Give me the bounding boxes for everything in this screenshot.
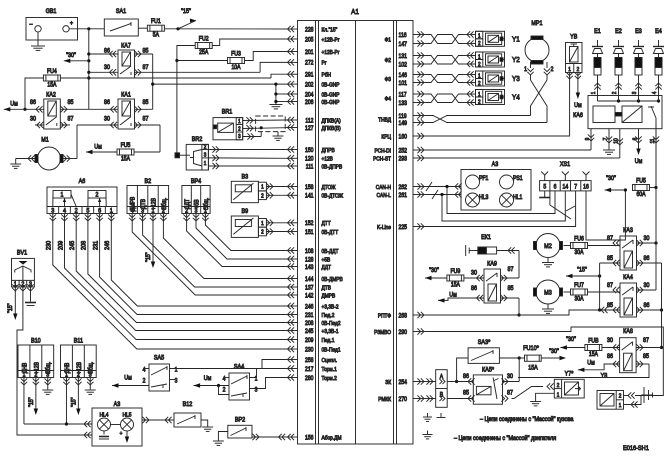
svg-text:268: 268 xyxy=(399,313,407,319)
svg-text:CAN-H: CAN-H xyxy=(376,184,391,190)
wire BR2 pin3 xyxy=(208,157,286,159)
wire BR1 pin3 shield xyxy=(243,136,262,138)
fan motor M2 xyxy=(536,234,560,258)
svg-text:16: 16 xyxy=(583,184,589,190)
svg-text:25А: 25А xyxy=(199,50,208,56)
svg-text:152: 152 xyxy=(305,221,313,227)
wire KA4 85 from 268 xyxy=(600,309,620,311)
svg-text:120: 120 xyxy=(305,156,313,162)
svg-text:Е3: Е3 xyxy=(635,29,642,35)
svg-text:ВР4: ВР4 xyxy=(191,179,202,185)
wire YB pin2 Um xyxy=(575,72,581,79)
svg-text:CAN-L: CAN-L xyxy=(377,192,392,198)
wire KA9 87 to EK1 xyxy=(501,277,520,279)
wire A1 268 to KA4 85 xyxy=(426,310,608,315)
svg-text:GB1: GB1 xyxy=(46,9,57,15)
svg-text:+3,3В-2: +3,3В-2 xyxy=(322,304,339,310)
svg-text:146: 146 xyxy=(399,72,407,78)
svg-text:111: 111 xyxy=(306,164,314,170)
wire KA5 30 to FU10 node xyxy=(503,381,520,383)
svg-text:+12В-Рг: +12В-Рг xyxy=(322,49,340,55)
svg-text:1: 1 xyxy=(568,66,571,72)
svg-text:1: 1 xyxy=(61,192,64,198)
svg-text:1: 1 xyxy=(238,119,241,125)
svg-text:Y3: Y3 xyxy=(512,76,520,84)
TNVD wires 119 149 cross xyxy=(426,116,547,123)
svg-text:BR1: BR1 xyxy=(222,109,233,115)
ground B12 xyxy=(201,420,208,427)
svg-text:РСН-DI: РСН-DI xyxy=(374,148,391,154)
svg-text:0В-ДМРВ: 0В-ДМРВ xyxy=(322,276,344,282)
wire KA3 30 to trunk xyxy=(637,242,657,244)
svg-text:108: 108 xyxy=(305,248,313,254)
wire FU1 to A1 pin 228 xyxy=(164,28,286,30)
svg-text:Ф2: Ф2 xyxy=(385,57,391,63)
svg-text:141: 141 xyxy=(305,193,313,199)
svg-text:K-Line: K-Line xyxy=(377,224,391,230)
wire KA5 87 to Y7 xyxy=(501,395,508,401)
svg-text:Y8: Y8 xyxy=(601,373,608,379)
svg-text:"30": "30" xyxy=(566,337,576,343)
wire BR1 pin1 xyxy=(243,119,286,122)
svg-text:FU10*: FU10* xyxy=(523,346,539,352)
svg-text:204: 204 xyxy=(305,92,313,98)
wire B10/B11 to A3 lamps xyxy=(24,423,92,425)
svg-text:FU1: FU1 xyxy=(151,19,161,25)
svg-text:0В-Пед1: 0В-Пед1 xyxy=(322,347,341,353)
svg-text:FU4: FU4 xyxy=(47,69,57,75)
svg-text:FU6: FU6 xyxy=(574,236,584,242)
svg-text:КА2: КА2 xyxy=(46,92,56,98)
wire BR2 pin1 xyxy=(208,165,286,167)
svg-text:FUВ: FUВ xyxy=(588,338,599,344)
svg-text:128: 128 xyxy=(305,257,313,263)
svg-text:SA1: SA1 xyxy=(116,9,126,15)
wire KA8 85 xyxy=(636,363,649,365)
wire FU3 feed xyxy=(177,60,228,62)
wire SA4 pin1 to A1 217 xyxy=(250,369,287,378)
svg-text:Uм: Uм xyxy=(124,375,132,381)
svg-text:258: 258 xyxy=(305,357,313,363)
pot 1 in A6 xyxy=(53,191,71,199)
wire FU7 to KA4 87 xyxy=(588,291,621,293)
ground Y8 engine xyxy=(643,387,645,403)
wire KA2 85 to KA1 86 xyxy=(60,108,118,110)
wire KA6 pin10 to A1 293 row xyxy=(612,157,620,159)
svg-text:2: 2 xyxy=(223,387,226,393)
wire 15 vertical xyxy=(599,263,601,310)
svg-text:60А: 60А xyxy=(636,192,645,198)
wire A6 pin to A1 231 xyxy=(96,214,102,221)
svg-text:"30": "30" xyxy=(429,268,439,274)
svg-text:FU3: FU3 xyxy=(231,51,241,57)
svg-text:РЗМВО: РЗМВО xyxy=(374,329,391,335)
svg-text:НL3: НL3 xyxy=(479,195,488,201)
svg-text:А1: А1 xyxy=(351,9,359,17)
wire A1 252 to KA6 pin9 xyxy=(426,149,591,151)
antenna mark XS1-16 xyxy=(585,175,587,181)
wire A row from A1 254 xyxy=(426,381,436,383)
svg-text:30: 30 xyxy=(507,374,514,380)
wire B10 pin3 ground xyxy=(45,378,51,385)
svg-text:6: 6 xyxy=(554,184,557,190)
svg-text:КА5*: КА5* xyxy=(482,367,495,373)
pot 2 in A6 xyxy=(88,191,106,199)
svg-text:102: 102 xyxy=(399,62,407,68)
svg-text:5А: 5А xyxy=(153,32,159,38)
svg-text:+5В: +5В xyxy=(322,257,331,263)
wire B9 pin1 xyxy=(266,222,286,224)
svg-text:0В-ДДТ: 0В-ДДТ xyxy=(322,248,340,254)
wire E3 to coil xyxy=(638,75,640,96)
injector Y3 xyxy=(476,71,505,86)
wire KA7 87 to A1 272 xyxy=(135,71,261,73)
svg-text:208: 208 xyxy=(305,320,313,326)
svg-text:Uм: Uм xyxy=(635,159,643,165)
svg-text:Рг: Рг xyxy=(322,60,327,66)
wire XS1-7 K-line to A1 225 xyxy=(426,191,576,227)
svg-text:Сцепл.: Сцепл. xyxy=(322,357,338,363)
wire B2 pin2 to A1 144 xyxy=(160,214,166,221)
wire KA1 87 to FU5 xyxy=(135,124,161,126)
wire E2 to coil xyxy=(618,75,620,96)
wire B3 pin2 xyxy=(266,194,286,196)
svg-text:202: 202 xyxy=(305,82,313,88)
svg-text:2: 2 xyxy=(204,144,207,150)
wire SA1-FU1 xyxy=(138,27,147,29)
svg-text:FU7: FU7 xyxy=(574,283,584,289)
wire XS1-16 to 30 feed xyxy=(586,190,625,240)
svg-text:Абор.ДМ: Абор.ДМ xyxy=(322,435,342,441)
svg-text:217: 217 xyxy=(305,366,313,372)
twisted pair to Y4 xyxy=(426,94,463,103)
svg-text:0В-GNP: 0В-GNP xyxy=(322,99,340,105)
wire B2 pin4 to A1 142 xyxy=(129,214,135,221)
svg-text:BR2: BR2 xyxy=(192,137,203,143)
svg-text:246: 246 xyxy=(305,304,313,310)
svg-text:FU5: FU5 xyxy=(121,143,131,149)
svg-text:1: 1 xyxy=(557,392,560,398)
svg-text:85: 85 xyxy=(607,256,613,262)
svg-text:– Цепи соединены с "Массой" д: – Цепи соединены с "Массой" двигателя xyxy=(454,435,556,443)
svg-text:231: 231 xyxy=(93,240,99,250)
svg-text:280: 280 xyxy=(305,375,313,381)
wire FU3 to A1 201 xyxy=(245,52,287,61)
ground at GB1 xyxy=(37,32,39,46)
wire KA8 87 to trunk2 xyxy=(636,347,661,349)
svg-text:"30": "30" xyxy=(66,53,76,59)
wire KA3 86 right xyxy=(637,262,662,264)
svg-text:ТНВД: ТНВД xyxy=(378,117,391,123)
svg-text:245: 245 xyxy=(70,240,76,250)
wire B2 pin3 to A1 137 xyxy=(139,214,145,221)
svg-text:"30": "30" xyxy=(549,349,559,355)
svg-text:137: 137 xyxy=(305,285,313,291)
svg-text:НL1: НL1 xyxy=(513,195,522,201)
svg-text:Y2: Y2 xyxy=(512,57,520,65)
wire KA4 86 right trunk2 xyxy=(637,309,662,311)
svg-text:Е016-SН1: Е016-SН1 xyxy=(623,445,649,453)
injector Y1 xyxy=(476,31,505,46)
svg-text:272: 272 xyxy=(305,60,313,66)
wire BP4 pin3 to A1 128 xyxy=(193,214,199,221)
ground XS1-5 xyxy=(544,191,546,198)
svg-text:209: 209 xyxy=(58,240,64,250)
svg-text:15А: 15А xyxy=(528,365,538,371)
svg-text:FU9: FU9 xyxy=(451,269,461,275)
main 30 trunk right xyxy=(655,123,657,290)
svg-text:143: 143 xyxy=(305,264,313,270)
svg-text:231: 231 xyxy=(305,312,313,318)
wire A1 290 loop to Y8 xyxy=(426,327,663,396)
svg-text:85: 85 xyxy=(643,354,649,360)
svg-text:РF1: РF1 xyxy=(479,176,488,182)
svg-text:0В-GNP: 0В-GNP xyxy=(322,92,340,98)
svg-text:+5В: +5В xyxy=(194,199,200,208)
svg-text:2: 2 xyxy=(238,126,241,132)
svg-text:YВ: YВ xyxy=(570,34,577,40)
ground M3 xyxy=(547,304,549,309)
svg-text:Ф1: Ф1 xyxy=(385,37,391,43)
svg-text:3: 3 xyxy=(238,134,241,140)
svg-text:Uм: Uм xyxy=(574,103,582,109)
wire FU4 to trunk and A1 291 xyxy=(60,77,88,79)
svg-text:205: 205 xyxy=(305,37,313,43)
svg-text:Пед.1: Пед.1 xyxy=(322,337,335,343)
svg-text:85: 85 xyxy=(68,100,74,106)
svg-text:1: 1 xyxy=(204,160,207,166)
svg-text:150: 150 xyxy=(305,147,313,153)
fan motor M3 xyxy=(536,280,560,304)
svg-text:15А: 15А xyxy=(451,282,460,288)
svg-text:30: 30 xyxy=(644,236,651,242)
svg-text:ДДТ: ДДТ xyxy=(322,264,332,270)
wire A6 pin to A1 246 xyxy=(108,214,114,221)
svg-text:87: 87 xyxy=(507,390,513,396)
legend ground symbol engine xyxy=(427,431,429,435)
svg-text:1: 1 xyxy=(261,184,264,190)
svg-text:290: 290 xyxy=(399,329,407,335)
wire Y8 pin2 from loop xyxy=(624,395,629,397)
svg-text:117: 117 xyxy=(399,92,407,98)
wire E1 to coil xyxy=(597,75,599,96)
svg-text:127: 127 xyxy=(305,125,313,131)
wire A6 pin to A1 245 xyxy=(73,214,79,221)
wire BV1 pin2 to A3 xyxy=(20,284,26,291)
svg-text:ЕК1: ЕК1 xyxy=(481,235,491,241)
svg-text:+12В-Рг: +12В-Рг xyxy=(322,37,340,43)
svg-text:SA5: SA5 xyxy=(154,355,165,361)
svg-text:А3: А3 xyxy=(492,162,499,168)
svg-text:144: 144 xyxy=(305,276,313,282)
svg-text:SА3*: SА3* xyxy=(478,340,491,346)
svg-text:ДТОЖ: ДТОЖ xyxy=(322,184,336,190)
svg-text:86: 86 xyxy=(644,256,650,262)
wire M1 left to ground xyxy=(16,158,35,160)
svg-text:Торм.2: Торм.2 xyxy=(322,375,337,381)
svg-text:2: 2 xyxy=(478,41,481,47)
svg-text:208: 208 xyxy=(81,240,87,250)
svg-text:2: 2 xyxy=(612,92,618,95)
wire Y8 pin1 ground xyxy=(624,395,642,405)
svg-text:10А: 10А xyxy=(231,65,240,71)
CAN twist marks xyxy=(426,182,432,191)
svg-text:230: 230 xyxy=(305,347,313,353)
wire KA4 30 to trunk xyxy=(637,289,657,291)
svg-text:Пед.2: Пед.2 xyxy=(322,312,335,318)
svg-text:"15": "15" xyxy=(577,267,587,273)
svg-text:Uм: Uм xyxy=(587,360,595,366)
svg-text:14: 14 xyxy=(563,184,569,190)
svg-text:87: 87 xyxy=(508,267,514,273)
svg-text:В3: В3 xyxy=(242,174,249,180)
svg-text:15А: 15А xyxy=(589,352,598,358)
ground BP2 xyxy=(218,432,227,442)
svg-text:Y4: Y4 xyxy=(512,94,520,102)
svg-text:"30": "30" xyxy=(606,176,616,182)
svg-text:КА3: КА3 xyxy=(623,228,633,234)
svg-text:293: 293 xyxy=(399,156,407,162)
svg-text:1: 1 xyxy=(261,220,264,226)
svg-text:151: 151 xyxy=(305,229,313,235)
svg-text:ДПКВ(В): ДПКВ(В) xyxy=(322,125,341,131)
wire A6 pin to A1 230 xyxy=(50,214,56,221)
wire CAN-L to A3 xyxy=(426,194,461,196)
wire A6 pin to A1 208 xyxy=(85,214,91,221)
wire FU4 feed xyxy=(25,78,43,109)
wire HL4-HL5 xyxy=(111,424,121,426)
svg-text:FU5: FU5 xyxy=(636,178,646,184)
svg-text:3: 3 xyxy=(175,378,178,384)
svg-text:1: 1 xyxy=(619,403,622,409)
wire BP4 pin1 to A1 108 xyxy=(202,214,208,221)
svg-text:0В-ДТОЖ: 0В-ДТОЖ xyxy=(322,193,344,199)
svg-text:2: 2 xyxy=(551,67,554,73)
wire SA5 pin1 to A1 258 xyxy=(170,360,287,369)
svg-text:ВР2: ВР2 xyxy=(235,417,245,423)
svg-text:87: 87 xyxy=(643,338,649,344)
wire BR2 pin2 xyxy=(208,149,286,151)
antenna mark XS1-5 xyxy=(544,175,546,181)
ground node GNP 202-204-206 xyxy=(276,93,286,95)
svg-text:Е1: Е1 xyxy=(594,29,601,35)
svg-text:0В-Пед2: 0В-Пед2 xyxy=(322,320,341,326)
wire KA2 30 stub xyxy=(35,124,44,126)
svg-text:131: 131 xyxy=(399,53,407,59)
svg-text:КА9: КА9 xyxy=(487,261,497,267)
wire FU6 to KA3 87 xyxy=(588,245,621,247)
wire YB pin1 to A1 160 xyxy=(566,72,572,79)
svg-text:В2: В2 xyxy=(144,179,151,185)
svg-text:ДТТ: ДТТ xyxy=(322,221,332,227)
svg-text:Y1: Y1 xyxy=(512,36,520,44)
svg-text:116: 116 xyxy=(399,32,407,38)
svg-text:Uм: Uм xyxy=(204,376,212,382)
main 30 trunk xyxy=(88,29,90,110)
svg-text:0В-GNP: 0В-GNP xyxy=(322,82,340,88)
wire B10 pin1 down xyxy=(21,378,27,385)
svg-text:В11: В11 xyxy=(74,338,83,344)
svg-text:Y7*: Y7* xyxy=(565,371,574,377)
svg-text:КРЦ: КРЦ xyxy=(381,134,391,140)
svg-text:4: 4 xyxy=(652,92,658,95)
wire KA5 86 xyxy=(457,381,474,383)
svg-text:225: 225 xyxy=(399,224,407,230)
wire BV1 pin1 15 xyxy=(12,284,18,291)
svg-text:КА6: КА6 xyxy=(573,113,583,119)
ground HL4 xyxy=(103,431,105,435)
legend ground symbols body xyxy=(427,413,429,417)
wire BP2 to A1 156 xyxy=(252,436,286,438)
antenna mark XS1-14 xyxy=(564,175,566,181)
svg-text:30: 30 xyxy=(104,116,111,122)
twisted pair to Y2 xyxy=(426,56,463,65)
ground M2 xyxy=(547,258,549,263)
svg-text:1: 1 xyxy=(478,73,481,79)
wire B3 pin1 xyxy=(266,186,286,188)
wire FU8 to KA8 30 xyxy=(602,347,620,349)
wire FU9 to KA9 30 xyxy=(464,277,484,279)
svg-text:245: 245 xyxy=(305,328,313,334)
wire KA6 pin9 to A1 252 row xyxy=(590,148,592,151)
wire KA2 87 stub xyxy=(60,124,70,126)
wire FU2 to A1 205 xyxy=(212,39,286,46)
svg-text:156: 156 xyxy=(305,435,313,441)
connector AB xyxy=(436,370,448,408)
svg-text:В9: В9 xyxy=(242,209,249,215)
svg-text:246: 246 xyxy=(105,240,111,250)
svg-text:2: 2 xyxy=(261,193,264,199)
wire KA9 85 down to 268 line xyxy=(501,297,520,299)
svg-text:261: 261 xyxy=(399,192,407,198)
svg-text:1: 1 xyxy=(478,91,481,97)
wire SA3 left to KA5 86 xyxy=(457,358,469,382)
wire SA3 right to FU10 xyxy=(499,357,519,359)
svg-text:А6: А6 xyxy=(79,179,86,185)
wire E4 to coil xyxy=(658,75,660,96)
svg-text:1: 1 xyxy=(478,54,481,60)
wire KA1 85 join xyxy=(135,108,153,110)
wire MP1 cross to A1 TNVD pins xyxy=(531,75,548,123)
svg-text:142: 142 xyxy=(305,293,313,299)
svg-text:86: 86 xyxy=(463,374,469,380)
ground Y7 wire xyxy=(536,393,555,401)
svg-text:2: 2 xyxy=(577,66,580,72)
svg-text:133: 133 xyxy=(399,100,407,106)
svg-text:2: 2 xyxy=(478,80,481,86)
svg-text:2: 2 xyxy=(619,393,622,399)
injector Y2 xyxy=(476,52,505,67)
svg-text:"15": "15" xyxy=(181,9,191,15)
wire SA4 pin3 to A1 280 xyxy=(250,378,287,389)
svg-text:85: 85 xyxy=(143,100,149,106)
svg-text:Uм: Uм xyxy=(10,101,18,107)
svg-text:30: 30 xyxy=(30,116,37,122)
wire KA1 30 from M1 xyxy=(77,124,118,126)
wire B10 pin2 15 feed xyxy=(33,378,39,385)
svg-text:Ф4: Ф4 xyxy=(385,96,391,102)
svg-text:15А: 15А xyxy=(47,82,56,88)
svg-text:SA4: SA4 xyxy=(234,364,245,370)
svg-text:РS1: РS1 xyxy=(513,176,523,182)
svg-text:30А: 30А xyxy=(574,250,583,256)
wire A6 pin to A1 209 xyxy=(61,214,67,221)
svg-text:254: 254 xyxy=(399,379,407,385)
wire FU2 feed rail xyxy=(177,46,195,153)
svg-text:2: 2 xyxy=(557,383,560,389)
svg-text:2: 2 xyxy=(96,192,99,198)
svg-text:86: 86 xyxy=(30,100,36,106)
